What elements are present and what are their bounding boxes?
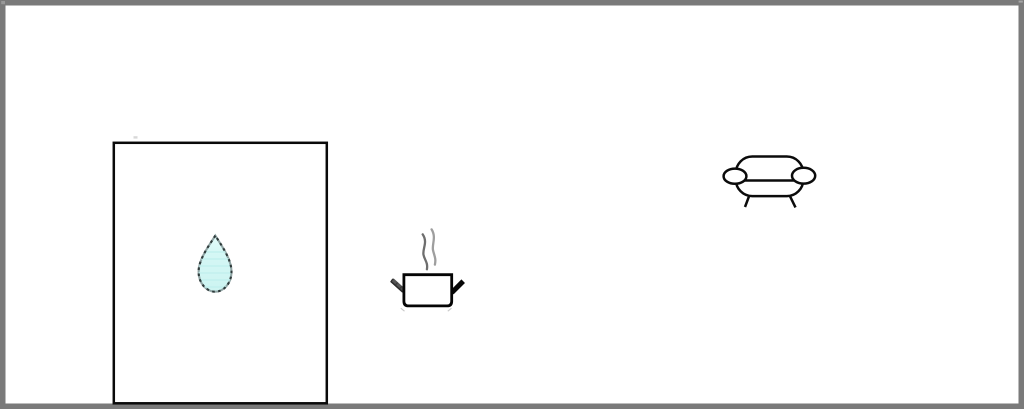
- sofa left leg: [745, 196, 749, 207]
- water drop: [196, 236, 234, 292]
- door rectangle: [114, 136, 327, 403]
- sofa body: [736, 157, 804, 197]
- pot base tick right: [448, 308, 452, 311]
- pot right handle: [452, 281, 463, 292]
- pot left handle: [391, 279, 404, 292]
- sofa left armrest: [724, 169, 747, 184]
- pot base tick left: [401, 308, 405, 311]
- steam line 1: [423, 234, 427, 269]
- sofa right armrest: [792, 168, 815, 184]
- sofa right leg: [790, 196, 796, 208]
- pot body: [404, 275, 452, 306]
- steam line 2: [432, 229, 436, 264]
- sofa seat line: [744, 179, 794, 182]
